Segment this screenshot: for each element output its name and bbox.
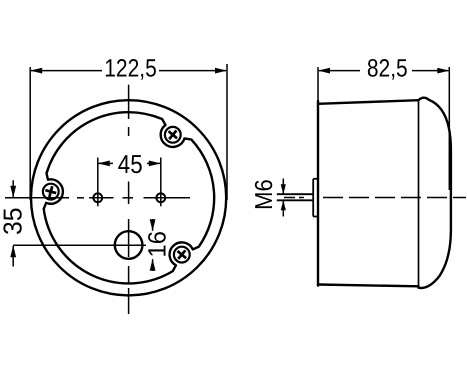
arrow right 122,5 xyxy=(215,68,227,74)
arrow left 122,5 xyxy=(30,68,42,74)
side view centerline xyxy=(284,197,466,199)
arrow right 45 xyxy=(149,161,161,167)
horizontal centerline front view xyxy=(5,197,190,199)
M6 threaded stud xyxy=(277,194,313,200)
svg-text:122,5: 122,5 xyxy=(104,55,157,83)
mounting hole right xyxy=(156,193,165,202)
extension line through left hole xyxy=(97,158,99,207)
cable hole dia 16 xyxy=(115,231,143,259)
vertical centerline front view xyxy=(128,85,130,314)
arrow left 45 xyxy=(98,161,110,167)
M6 dimension arrow lines xyxy=(282,179,284,217)
side view bottom edge xyxy=(318,285,419,287)
arrow down 35 xyxy=(10,186,16,198)
dimension 35 lines xyxy=(12,180,14,266)
side view housing back edge xyxy=(317,101,319,286)
extension line through right hole xyxy=(160,158,162,207)
dimension 16 lines xyxy=(152,219,154,271)
screw S1 (lower right) xyxy=(174,247,190,263)
extension line through 16-hole for 35 dim xyxy=(13,244,146,246)
dimension 82,5 lines xyxy=(318,67,449,190)
inner lens edge with three screw recesses xyxy=(44,112,214,283)
svg-text:82,5: 82,5 xyxy=(367,55,408,83)
arrow up M6 xyxy=(281,200,286,210)
dimension 45 lines xyxy=(98,162,160,164)
mounting hole left xyxy=(93,193,102,202)
svg-text:M6: M6 xyxy=(251,179,278,210)
arrow right 82,5 xyxy=(437,68,449,74)
lens joint line xyxy=(418,100,420,288)
svg-text:16: 16 xyxy=(143,231,171,257)
svg-text:35: 35 xyxy=(0,208,28,235)
arrow up 35 xyxy=(10,245,16,257)
lens dome profile xyxy=(419,98,451,288)
arrow left 82,5 xyxy=(318,68,330,74)
screw S3 (upper right) xyxy=(165,127,181,143)
dimension 122,5 extension and lines xyxy=(30,64,227,200)
arrow down 16 xyxy=(150,219,156,231)
outer circle (housing rim, dia 122,5) xyxy=(31,100,226,295)
arrow down M6 xyxy=(281,184,286,194)
stud boss plate xyxy=(313,179,318,217)
screw S2 (left) xyxy=(43,184,59,200)
svg-text:45: 45 xyxy=(118,149,143,179)
arrow up 16 xyxy=(150,259,156,271)
side view top edge xyxy=(318,100,419,104)
